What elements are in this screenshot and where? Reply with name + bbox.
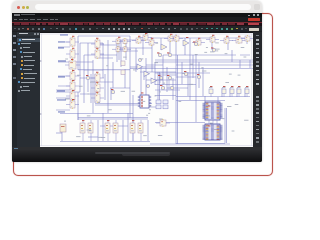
traffic light green [26, 6, 29, 9]
wire [80, 77, 95, 79]
connector J3 [230, 87, 234, 97]
connector J5 pin cluster [138, 95, 151, 108]
traffic light yellow [22, 6, 25, 9]
wire [167, 87, 188, 89]
chrome right button [254, 4, 261, 10]
wire [116, 42, 118, 62]
wire [94, 74, 96, 103]
wire [145, 58, 147, 95]
wire [140, 71, 176, 73]
panel header [17, 32, 40, 37]
wire [58, 41, 70, 43]
wire [175, 34, 177, 144]
sheet border [40, 34, 253, 147]
wire [176, 100, 225, 102]
wire [77, 92, 79, 120]
C2 capacitor [145, 39, 158, 46]
IC U11 comparator [91, 73, 104, 83]
wire [151, 38, 153, 72]
op-amp U14 [183, 40, 189, 46]
wire [56, 89, 70, 91]
wire [102, 43, 104, 78]
connector J5 [245, 87, 249, 97]
browser window [12, 1, 262, 162]
wire [142, 38, 144, 55]
wire [216, 120, 218, 124]
wire [78, 35, 130, 37]
resistor network RN1 [156, 100, 168, 109]
Q19 transistor [86, 76, 90, 80]
wire [121, 50, 138, 52]
Q5 transistor [132, 37, 145, 44]
transistor Q32 [146, 84, 149, 87]
wire [150, 37, 212, 39]
wire [146, 64, 163, 66]
wire [217, 97, 219, 108]
wire [189, 38, 191, 100]
wire [192, 55, 194, 78]
wire [155, 59, 253, 61]
wire [163, 54, 236, 56]
Q17 transistor [184, 72, 188, 76]
wire [181, 62, 183, 84]
wire [117, 47, 152, 49]
Q2 transistor [119, 38, 131, 44]
wire [184, 38, 186, 55]
Q1 transistor [112, 38, 124, 44]
wire [122, 120, 124, 141]
wire [56, 91, 80, 93]
wire [90, 74, 92, 103]
wire [84, 69, 103, 71]
Q13 transistor [159, 76, 163, 80]
wire [130, 68, 253, 70]
wire [80, 93, 95, 95]
wire [224, 108, 226, 143]
wire [80, 42, 103, 44]
wire [158, 74, 177, 76]
net labels left column [57, 34, 68, 112]
wire [112, 62, 114, 88]
wire [61, 132, 63, 141]
wire [129, 36, 131, 118]
Q4 transistor [119, 46, 131, 52]
IC U9 [91, 39, 104, 49]
IC U7 driver [66, 91, 79, 101]
wire [157, 72, 159, 100]
wire [166, 67, 168, 92]
wire [177, 55, 179, 144]
wire [160, 38, 162, 50]
Q16 transistor [170, 86, 174, 90]
wire [95, 103, 152, 105]
wire [91, 81, 113, 83]
op-amp U17 [144, 71, 150, 76]
wire [155, 72, 210, 74]
wire [56, 132, 62, 134]
IC U4 converter [65, 60, 80, 70]
op-amp U15 [161, 44, 167, 50]
wire [120, 40, 122, 67]
Q6 transistor [192, 39, 205, 46]
Q12 transistor [212, 48, 216, 52]
wire [107, 40, 109, 113]
connector J4 [237, 87, 241, 97]
wire [125, 42, 127, 60]
wire [132, 120, 134, 141]
wire [155, 95, 176, 97]
red license badge [248, 18, 260, 21]
wire [159, 72, 161, 100]
wire [204, 96, 206, 108]
D2 diode [232, 37, 246, 44]
Q14 transistor [168, 76, 172, 80]
wire [104, 74, 106, 100]
R1 resistor [164, 35, 177, 42]
IC U8 driver [66, 100, 79, 109]
wire [154, 62, 156, 85]
component designator labels [71, 33, 248, 126]
wire [124, 69, 126, 88]
status bar [12, 147, 262, 150]
wire [56, 109, 70, 111]
wire [187, 72, 189, 96]
connector J2 [222, 87, 226, 97]
schematic canvas [40, 33, 253, 148]
wire [231, 50, 233, 62]
wire [140, 67, 142, 95]
wire [240, 54, 250, 56]
wire [58, 61, 93, 63]
wire [155, 79, 176, 81]
IC U3 regulator [66, 49, 79, 59]
wire [155, 89, 180, 91]
wire [155, 61, 253, 63]
wire [110, 88, 112, 100]
wire [146, 79, 163, 81]
wire [229, 88, 231, 97]
wire [92, 60, 94, 113]
transistor array group Q22 [130, 120, 143, 141]
window control glyphs [248, 15, 250, 16]
transistor array group Q21 [105, 120, 118, 141]
Q10 transistor [168, 53, 172, 57]
wire [78, 118, 148, 120]
transistor array group Q20 [80, 120, 93, 141]
wire [88, 136, 98, 138]
transistor Q30 [60, 124, 66, 132]
wire [172, 78, 174, 100]
wire [168, 80, 170, 90]
icon toolbar row [12, 26, 262, 31]
wire [96, 44, 117, 46]
wire [211, 36, 213, 50]
wire [58, 75, 70, 77]
wire [83, 55, 85, 103]
menu row [12, 17, 262, 22]
wire [236, 88, 238, 97]
wire [100, 125, 128, 127]
wire [169, 36, 171, 55]
wire [58, 85, 70, 87]
window bottom dark band [12, 150, 262, 162]
wire [244, 88, 246, 97]
wire [221, 88, 223, 97]
wire [87, 43, 89, 92]
wire [176, 96, 250, 98]
capacitor C4 [121, 61, 125, 66]
Q3 transistor [112, 46, 124, 52]
wire [56, 97, 70, 99]
D1 diode [220, 37, 233, 44]
wire [58, 46, 70, 48]
wire [96, 57, 113, 59]
wire [77, 113, 79, 120]
wire [130, 66, 155, 68]
Q7 transistor [206, 36, 219, 43]
Q15 transistor [161, 86, 165, 90]
wire [249, 60, 251, 68]
wire [246, 36, 248, 44]
traffic light red [17, 6, 20, 9]
wire [176, 64, 253, 66]
projects panel [17, 32, 40, 148]
Q20 transistor [111, 90, 115, 94]
wire [78, 117, 148, 119]
Q9 transistor [158, 53, 162, 57]
IC U10 [91, 49, 104, 59]
wire [77, 36, 79, 70]
Q18 transistor [197, 75, 201, 79]
wire [84, 54, 117, 56]
C1 capacitor [139, 34, 152, 41]
wire [118, 42, 120, 60]
red toolbar row [12, 22, 262, 27]
wire [162, 55, 164, 85]
wire [202, 67, 204, 96]
wire [228, 37, 250, 39]
capacitor C5 [121, 70, 125, 75]
IC U1 gate driver A [203, 102, 223, 120]
connector J1 [209, 87, 213, 97]
R3 resistor [156, 119, 170, 127]
transistor Q31 [138, 58, 141, 61]
wire [95, 104, 140, 106]
wire [118, 39, 143, 41]
R2 resistor [170, 35, 183, 42]
Q11 transistor [194, 42, 198, 46]
sheet zone labels [40, 60, 41, 115]
wire [147, 120, 149, 141]
wire [79, 43, 81, 92]
red annotation rounded rectangle [13, 13, 273, 176]
wire [227, 36, 229, 50]
left icon strip [12, 32, 17, 148]
wire [198, 62, 200, 88]
wire [60, 113, 133, 115]
op-amp U16 [137, 64, 143, 69]
wire [195, 55, 197, 122]
right sidebar [253, 32, 262, 148]
value labels [64, 43, 249, 138]
wire [97, 120, 99, 141]
wire [102, 113, 104, 141]
wire [148, 95, 150, 103]
browser chrome bar [12, 1, 262, 13]
wire [143, 72, 145, 80]
IC U5 opto [66, 71, 79, 81]
url bar [35, 4, 251, 11]
wire [226, 108, 228, 143]
op-amp U18 [151, 78, 157, 83]
wire [176, 76, 196, 78]
wire [176, 143, 225, 145]
wire [155, 84, 196, 86]
wire [239, 60, 241, 68]
wire [110, 87, 130, 89]
IC U6 opto [66, 81, 79, 91]
app title bar row [12, 13, 262, 18]
IC U13 [91, 93, 104, 103]
wire [132, 95, 134, 120]
wire [127, 113, 129, 141]
IC U2 regulator [66, 37, 79, 47]
C3 capacitor [241, 35, 254, 42]
wire [78, 69, 130, 71]
selected tree row [17, 38, 40, 42]
wire [146, 106, 160, 108]
wire [150, 143, 230, 145]
wire [60, 141, 150, 143]
wire [135, 48, 137, 72]
wire [212, 120, 214, 124]
document tab strip [40, 32, 253, 34]
wire [155, 122, 205, 124]
wire [208, 120, 210, 124]
wire [159, 73, 161, 83]
IC U12 comparator [91, 83, 104, 93]
IC U1 gate driver B [203, 124, 223, 140]
app area background [12, 13, 262, 162]
